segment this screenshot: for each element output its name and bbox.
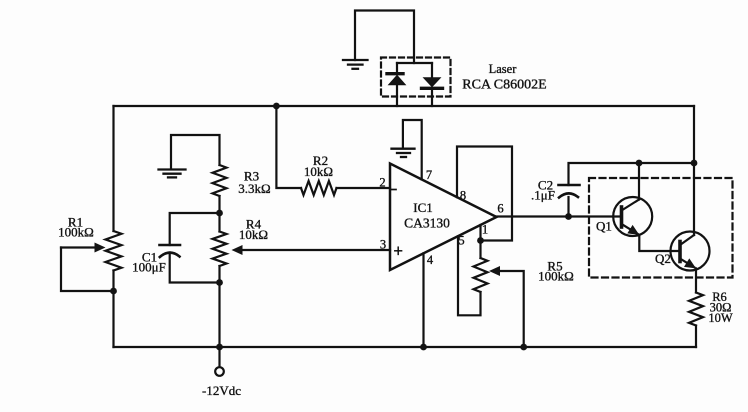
svg-text:RCA C86002E: RCA C86002E — [462, 78, 546, 93]
svg-text:100kΩ: 100kΩ — [538, 269, 574, 284]
op-amp plus sign (pin 3) — [395, 247, 402, 254]
svg-text:100kΩ: 100kΩ — [58, 225, 94, 240]
wire R3 top hook — [171, 135, 220, 169]
transistor Q1 — [613, 197, 652, 236]
wire bottom bus (-12V rail) — [114, 346, 697, 348]
capacitor C1 100uF — [160, 245, 181, 257]
svg-text:Q1: Q1 — [596, 219, 612, 234]
svg-text:3: 3 — [380, 238, 386, 252]
svg-text:8: 8 — [460, 189, 466, 203]
wire right drop (top bus corner down to Q2 collector node) — [693, 106, 695, 163]
svg-text:4: 4 — [427, 253, 434, 267]
node R1 wiper junction — [110, 288, 117, 295]
op-amp minus sign (pin 2) — [392, 189, 397, 191]
wire C1 top branch — [170, 213, 220, 245]
wire top bus (laser supply rail) — [114, 105, 695, 107]
wire Q2 emitter to R6 — [695, 268, 697, 292]
node C: R4/C1 bottom junction — [216, 279, 223, 286]
wire pin 8 feedback — [457, 147, 512, 241]
wire laser internal tee — [397, 62, 432, 64]
terminal -12Vdc — [215, 367, 224, 376]
wire Q1 collector — [638, 163, 640, 200]
node H: C2 tap on output — [565, 213, 572, 220]
node F: pin 4 on bottom bus — [420, 344, 427, 351]
op-amp U1 CA3130 triangle — [390, 164, 497, 271]
svg-text:10kΩ: 10kΩ — [239, 227, 268, 242]
laser module dashed box — [381, 58, 451, 97]
capacitor C2 .1uF — [567, 197, 569, 217]
wire right diode top stub — [431, 63, 433, 79]
wire R3 bottom to node — [218, 196, 220, 213]
wire pin 1 — [479, 225, 481, 241]
node B: R3/R4/C1 junction — [216, 210, 223, 217]
svg-text:.1μF: .1μF — [531, 188, 555, 203]
wire right diode leg to bus — [431, 88, 433, 106]
resistor R2 10k — [301, 181, 337, 195]
R5 wiper arrow — [489, 266, 500, 276]
resistor R4 10k (pot body) — [218, 213, 220, 232]
wire pin 7 to ground — [403, 120, 422, 179]
wire R2 branch drop — [276, 106, 301, 188]
svg-text:IC1: IC1 — [413, 200, 433, 215]
wire -12V terminal stub — [218, 347, 220, 367]
svg-text:CA3130: CA3130 — [404, 216, 450, 231]
node G: R5 wiper on bottom bus — [520, 344, 527, 351]
R4 wiper arrow to pin 3 — [232, 245, 243, 255]
wire left rail lower (R1 bottom to bottom bus) — [112, 271, 114, 348]
wire R4 bottom — [218, 266, 220, 283]
resistor R6 30 ohm 10W — [689, 293, 703, 326]
svg-text:10kΩ: 10kΩ — [304, 164, 333, 179]
node A: top bus to R2 branch junction — [273, 103, 280, 110]
diode D1 (laser diode, pointing up) — [387, 74, 405, 85]
wire R5 top — [479, 241, 481, 259]
ground (pin 7) — [392, 149, 415, 157]
node D: -12V tap on bottom bus — [216, 344, 223, 351]
wire Q2 collector — [693, 163, 695, 235]
resistor R1 100k (pot body) — [106, 231, 122, 271]
svg-text:6: 6 — [497, 202, 503, 216]
svg-text:7: 7 — [426, 168, 432, 182]
wire pin 4 to -12V bus — [422, 253, 424, 347]
svg-text:-12Vdc: -12Vdc — [202, 383, 241, 398]
R1 wiper arrow — [61, 246, 95, 248]
node J: Q2 collector junction — [691, 160, 698, 167]
svg-text:3.3kΩ: 3.3kΩ — [238, 181, 270, 196]
wire Q1 emitter to Q2 base — [639, 235, 680, 251]
transistor pair dashed box — [589, 178, 733, 278]
svg-text:Laser: Laser — [489, 62, 518, 76]
wire left diode top stub — [396, 63, 398, 73]
wire laser anode loop to ground — [355, 11, 414, 64]
ground (laser supply return) — [343, 60, 368, 69]
resistor R5 100k (pot body) — [474, 258, 488, 292]
svg-text:1: 1 — [482, 223, 488, 237]
transistor Q2 — [671, 232, 710, 271]
wire left rail upper (top bus to R1 top) — [112, 106, 114, 231]
svg-text:5: 5 — [458, 234, 464, 248]
svg-text:2: 2 — [379, 176, 385, 190]
ground (R3 top) — [159, 170, 186, 178]
svg-text:10W: 10W — [708, 311, 733, 325]
resistor R3 3.3k — [213, 165, 227, 196]
wire C1 bottom branch — [170, 253, 220, 283]
wire left diode leg to bus — [396, 85, 398, 106]
svg-text:Q2: Q2 — [655, 251, 671, 266]
wire R1 wiper loop — [61, 248, 114, 292]
wire C2 top to collector rail — [569, 163, 695, 185]
node I: Q1 collector junction — [636, 160, 643, 167]
wire C1/R4 node to bottom bus — [218, 283, 220, 348]
wire pin 6 output — [497, 215, 622, 217]
node E: pin1/R5 junction — [477, 237, 484, 244]
wire pin 3 input — [243, 249, 391, 251]
wire R5 bottom to pin 5 — [458, 236, 481, 315]
wire R5 wiper to bottom bus — [500, 271, 524, 347]
wire R6 bottom to bus — [695, 326, 697, 348]
svg-text:100μF: 100μF — [132, 260, 166, 275]
diode D2 (monitor photodiode, pointing down) — [422, 78, 443, 89]
wire R2 to pin 2 — [337, 187, 391, 189]
